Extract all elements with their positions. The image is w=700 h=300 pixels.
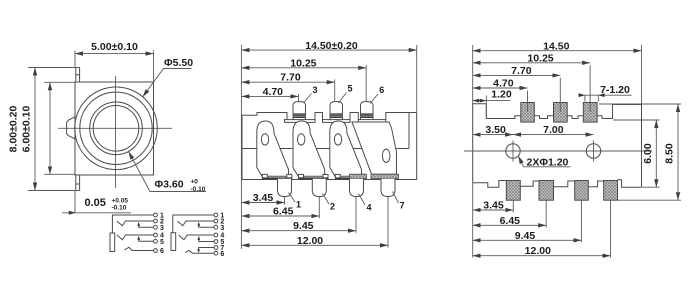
- side left extension line: [240, 45, 242, 249]
- S2 wire pin4 ring contact: [179, 235, 215, 240]
- svg-text:5: 5: [347, 84, 352, 94]
- top edge right of washer6: [386, 113, 417, 121]
- front view vertical centerline: [115, 76, 117, 188]
- leader dia 5.50: [143, 57, 193, 97]
- S1 pin 2: [154, 219, 158, 223]
- hole chamfer circle: [90, 102, 143, 155]
- S1 pin 4: [154, 233, 158, 237]
- footprint left extension line: [472, 45, 474, 258]
- svg-text:-0.10: -0.10: [112, 205, 127, 212]
- svg-text:8.00±0.20: 8.00±0.20: [8, 106, 20, 153]
- barrel outer circle: [75, 87, 158, 170]
- S2 pin 3: [214, 225, 218, 229]
- svg-text:3: 3: [160, 225, 164, 232]
- svg-text:8.50: 8.50: [664, 143, 676, 164]
- svg-text:0.05: 0.05: [85, 197, 106, 209]
- label 1 with leader: [289, 193, 296, 203]
- tower between washer5 and washer6: [350, 113, 358, 121]
- S2 wire pin3 switch: [199, 225, 214, 228]
- body inner wall: [408, 113, 410, 149]
- S2 wire pin6 contact: [185, 250, 214, 253]
- bottom pad 1: [506, 181, 520, 201]
- dim 6.45 side: [241, 197, 319, 218]
- hole circle: [93, 106, 139, 152]
- svg-text:5.00±0.10: 5.00±0.10: [91, 41, 138, 53]
- side body top-left step: [242, 113, 287, 121]
- washer under pin5: [323, 120, 351, 123]
- leg 7 pad plate: [371, 174, 399, 178]
- side right extension line: [416, 45, 418, 112]
- S1 wire pin6 contact: [125, 247, 154, 250]
- finger 2 hole: [298, 134, 305, 145]
- bottom pad 4: [604, 181, 618, 201]
- finger 4 hole: [382, 149, 390, 162]
- svg-text:6.00: 6.00: [642, 143, 654, 164]
- svg-text:3: 3: [312, 85, 317, 95]
- svg-text:Φ3.60: Φ3.60: [155, 179, 184, 191]
- dim 7.70 footprint: [473, 65, 561, 77]
- S1 wire pin2 tip contact: [117, 221, 154, 226]
- pin 3 crimp band: [293, 113, 306, 118]
- contact finger 2: [293, 121, 325, 176]
- label 4 with leader: [359, 194, 366, 206]
- svg-text:9.45: 9.45: [293, 220, 314, 232]
- dim 12.00 footprint: [473, 245, 611, 257]
- svg-text:10.25: 10.25: [527, 52, 553, 64]
- bottom pad centerlines: [513, 200, 610, 257]
- barrel inner ring: [80, 92, 152, 164]
- washer under pin3: [285, 120, 316, 123]
- S1 pin 3: [154, 225, 158, 229]
- top pad C: [583, 103, 597, 123]
- svg-text:9.45: 9.45: [515, 230, 536, 242]
- S1 wire pin3 switch: [139, 225, 154, 228]
- top mounting tab: [76, 68, 80, 83]
- contact finger 1: [257, 121, 289, 176]
- pin 6 shank: [361, 102, 374, 120]
- body mid seam: [242, 148, 409, 150]
- dim 7.00 footprint: [513, 124, 594, 136]
- S2 wire pin2 tip contact: [177, 221, 214, 226]
- dim 4.70 footprint: [473, 77, 528, 89]
- label 3 with leader: [304, 94, 312, 104]
- dim 6.45 footprint: [473, 215, 547, 227]
- svg-text:14.50±0.20: 14.50±0.20: [305, 40, 358, 52]
- left flange bump: [67, 117, 75, 139]
- dim 8.50 footprint: [599, 104, 681, 200]
- svg-text:+0.05: +0.05: [112, 197, 129, 204]
- dim 10.25 footprint: [473, 52, 590, 64]
- pin 3 shank: [293, 102, 306, 120]
- label 2 with leader: [323, 194, 330, 205]
- svg-text:12.00: 12.00: [297, 235, 323, 247]
- label 7 with leader: [393, 192, 399, 204]
- S2 pin 2: [214, 219, 218, 223]
- hole left 1.20: [506, 144, 520, 158]
- pin 5 crimp band: [330, 113, 343, 118]
- svg-text:6: 6: [160, 248, 164, 255]
- svg-text:+0: +0: [191, 179, 199, 186]
- S2 pin 5: [214, 240, 218, 244]
- schematic 2 sleeve contact: [171, 233, 176, 251]
- S1 pin 6: [154, 249, 158, 253]
- dim 14.50 footprint: [473, 40, 642, 104]
- S2 wire pin5 switch: [199, 239, 214, 242]
- dim 4.70 side: [241, 86, 298, 101]
- label 2X dia 1.20 holes: [518, 156, 570, 169]
- dim 5.00+-0.10: [75, 41, 154, 82]
- leg 7: [381, 179, 395, 197]
- svg-text:4.70: 4.70: [263, 86, 284, 98]
- S1 wire pin1 to sleeve: [112, 215, 153, 233]
- S1 wire pin4 ring contact: [117, 235, 154, 240]
- dim 6.00 footprint: [613, 120, 660, 187]
- front view horizontal centerline: [58, 127, 172, 129]
- svg-text:6.00±0.10: 6.00±0.10: [21, 106, 33, 153]
- svg-text:14.50: 14.50: [543, 40, 569, 52]
- svg-text:5: 5: [160, 239, 164, 246]
- top pad B: [554, 103, 568, 123]
- side body outline: [242, 113, 417, 180]
- svg-text:6.45: 6.45: [500, 215, 521, 227]
- label 7-1.20 pad width: [579, 84, 632, 102]
- S2 pin 7: [214, 246, 218, 250]
- finger 3 hole: [334, 134, 341, 145]
- finger 3 feet: [335, 174, 340, 178]
- S2 pin 4: [214, 233, 218, 237]
- svg-text:12.00: 12.00: [525, 245, 551, 257]
- svg-text:6.45: 6.45: [273, 206, 294, 218]
- dim 3.50 footprint: [473, 124, 513, 136]
- top pad centerlines: [528, 65, 591, 112]
- dim 9.45 side: [241, 197, 356, 233]
- contact finger 4: [352, 122, 397, 174]
- leg 4: [350, 179, 364, 197]
- dim 0.05 +0.05 -0.10: [62, 191, 131, 215]
- leg 1: [278, 179, 292, 197]
- svg-text:7.70: 7.70: [511, 65, 532, 77]
- pin 5 shank: [330, 102, 343, 120]
- S2 pin 1: [214, 213, 218, 217]
- svg-text:4.70: 4.70: [493, 77, 514, 89]
- jack front square body: [75, 82, 154, 175]
- S1 pin 5: [154, 239, 158, 243]
- svg-text:3.45: 3.45: [253, 192, 274, 204]
- leg 4 pad plate: [350, 174, 367, 178]
- dim 3.45 footprint: [473, 200, 514, 212]
- finger 2 feet: [299, 174, 304, 178]
- leg 2: [312, 179, 326, 197]
- dim 9.45 footprint: [473, 230, 582, 242]
- dim 7.70 side: [241, 72, 334, 101]
- tower between washer3 and washer5: [315, 113, 323, 121]
- footprint outline bottom edge: [473, 180, 642, 188]
- bottom mounting tab: [76, 175, 80, 191]
- label 5 with leader: [339, 93, 347, 104]
- svg-text:7.00: 7.00: [543, 124, 564, 136]
- bottom pad 2: [539, 181, 554, 201]
- dim 10.25 side: [241, 57, 366, 101]
- svg-text:1.20: 1.20: [491, 89, 512, 101]
- pin 6 crimp band: [361, 113, 374, 118]
- bottom pad 3: [575, 181, 589, 201]
- S2 wire pin1 to sleeve: [173, 215, 214, 233]
- svg-text:6: 6: [220, 251, 224, 258]
- svg-text:Φ5.50: Φ5.50: [164, 57, 193, 69]
- svg-text:3: 3: [220, 225, 224, 232]
- svg-text:10.25: 10.25: [290, 57, 316, 69]
- hole right 1.20: [586, 144, 600, 158]
- footprint outline left and top edge: [473, 104, 642, 187]
- svg-text:7: 7: [399, 201, 404, 211]
- svg-text:4: 4: [366, 203, 371, 213]
- washer under pin6: [358, 120, 386, 123]
- dim 8.00+-0.20: [8, 68, 81, 191]
- svg-text:3.45: 3.45: [483, 200, 504, 212]
- svg-text:6: 6: [379, 85, 384, 95]
- finger 1 feet: [262, 174, 267, 178]
- dim 3.45 side: [241, 192, 284, 205]
- svg-text:7.70: 7.70: [280, 72, 301, 84]
- S1 wire pin5 switch: [139, 239, 154, 242]
- contact finger 3: [330, 121, 362, 176]
- S2 pin 6: [214, 251, 218, 255]
- footprint horizontal centerline: [464, 150, 652, 152]
- leader dia 3.60 +0 -0.10: [129, 152, 207, 193]
- schematic 1 sleeve contact: [110, 233, 115, 252]
- S1 pin 1: [154, 213, 158, 217]
- svg-text:3.50: 3.50: [485, 124, 506, 136]
- top pad A: [521, 103, 535, 123]
- svg-text:2: 2: [330, 202, 335, 212]
- dim 14.50+-0.20: [241, 40, 416, 52]
- label 6 with leader: [370, 94, 378, 104]
- dim 6.00+-0.10: [21, 82, 76, 174]
- S2 wire pin7 switch: [199, 248, 214, 250]
- svg-text:1: 1: [296, 200, 301, 210]
- dim 1.20 footprint: [473, 89, 512, 118]
- finger 1 hole: [261, 134, 268, 145]
- dim 12.00 side: [241, 197, 388, 248]
